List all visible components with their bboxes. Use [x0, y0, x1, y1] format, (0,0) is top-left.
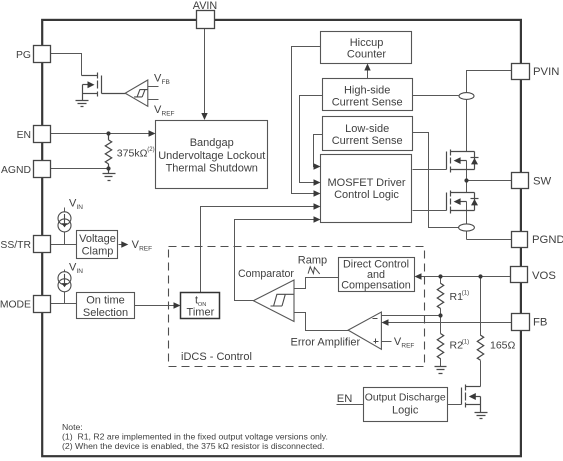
svg-text:REF: REF	[139, 246, 152, 253]
svg-text:IN: IN	[77, 204, 84, 211]
svg-text:REF: REF	[401, 343, 414, 350]
svg-text:Low-side: Low-side	[345, 123, 389, 135]
svg-text:165Ω: 165Ω	[490, 340, 516, 352]
svg-text:Counter: Counter	[347, 48, 386, 60]
svg-text:(1): (1)	[462, 339, 469, 345]
svg-text:IN: IN	[77, 268, 84, 275]
svg-text:Note:: Note:	[62, 422, 83, 432]
svg-text:Compensation: Compensation	[341, 279, 411, 291]
svg-text:Thermal Shutdown: Thermal Shutdown	[166, 163, 258, 175]
svg-text:Logic: Logic	[392, 405, 419, 417]
svg-text:On time: On time	[86, 295, 125, 307]
svg-text:375kΩ: 375kΩ	[117, 148, 148, 160]
svg-text:VOS: VOS	[532, 270, 556, 282]
svg-text:(1): (1)	[462, 291, 469, 297]
svg-text:REF: REF	[162, 111, 175, 118]
svg-text:Timer: Timer	[187, 307, 215, 319]
svg-text:EN: EN	[17, 130, 31, 141]
svg-text:FB: FB	[533, 317, 547, 329]
svg-text:Current Sense: Current Sense	[332, 135, 403, 147]
svg-text:AGND: AGND	[1, 165, 31, 176]
svg-text:MOSFET Driver: MOSFET Driver	[327, 177, 405, 189]
svg-text:EN: EN	[337, 393, 353, 405]
svg-text:AVIN: AVIN	[193, 0, 217, 12]
svg-text:Voltage: Voltage	[79, 233, 116, 245]
svg-text:PVIN: PVIN	[533, 66, 559, 78]
svg-text:Selection: Selection	[83, 307, 128, 319]
svg-text:FB: FB	[162, 79, 170, 86]
svg-text:Ramp: Ramp	[298, 255, 327, 267]
svg-text:PG: PG	[16, 50, 31, 61]
svg-text:(2): (2)	[147, 147, 154, 153]
svg-text:MODE: MODE	[0, 300, 31, 311]
svg-text:(1) R1, R2 are implemented in: (1) R1, R2 are implemented in the fixed …	[62, 432, 328, 442]
svg-text:PGND: PGND	[532, 234, 563, 246]
svg-text:iDCS - Control: iDCS - Control	[181, 351, 252, 363]
svg-text:Error Amplifier: Error Amplifier	[291, 337, 361, 349]
svg-text:Bandgap: Bandgap	[190, 137, 234, 149]
svg-text:High-side: High-side	[344, 84, 390, 96]
svg-text:SW: SW	[533, 176, 552, 188]
svg-text:Hiccup: Hiccup	[350, 37, 384, 49]
svg-text:Output Discharge: Output Discharge	[365, 392, 446, 403]
svg-text:Current Sense: Current Sense	[332, 97, 403, 109]
svg-text:Clamp: Clamp	[82, 245, 114, 257]
svg-text:Control Logic: Control Logic	[334, 189, 399, 201]
svg-text:(2) When the device is enabled: (2) When the device is enabled, the 375 …	[62, 441, 324, 451]
svg-text:Comparator: Comparator	[238, 268, 294, 280]
svg-text:Undervoltage Lockout: Undervoltage Lockout	[158, 150, 265, 162]
svg-text:SS/TR: SS/TR	[0, 240, 31, 251]
